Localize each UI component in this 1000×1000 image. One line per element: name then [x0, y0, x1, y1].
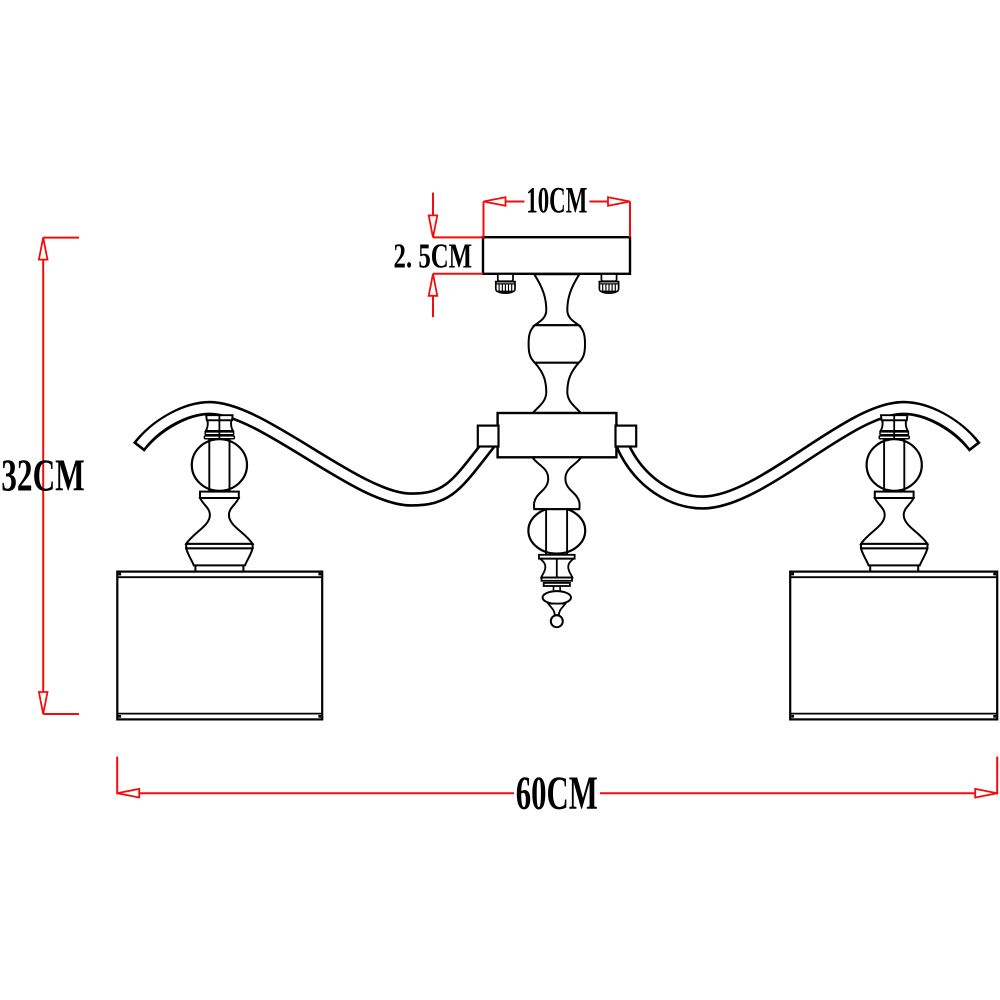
arrow 10CM right — [608, 197, 630, 206]
spool cap — [206, 415, 232, 420]
32CM top serif — [43, 237, 79, 239]
2.5CM lower leader — [432, 274, 434, 317]
finial bead — [543, 591, 571, 604]
crystal ball — [192, 439, 247, 491]
left arm tube — [139, 408, 492, 500]
arrow 2.5CM up — [429, 274, 438, 296]
10CM extension left — [483, 202, 485, 238]
left drum shade — [117, 572, 322, 720]
finial cup — [540, 559, 573, 578]
stub to shade — [194, 565, 196, 572]
right shade baluster — [861, 415, 927, 572]
32CM dimension line — [42, 238, 44, 714]
hub left tab — [478, 426, 499, 447]
finial drop ball — [551, 615, 563, 627]
finial teardrop — [548, 604, 565, 615]
left mounting screw — [496, 274, 515, 293]
right mounting screw — [599, 274, 618, 293]
spool cap — [881, 415, 907, 420]
hub right tab — [616, 426, 637, 447]
lower stem hourglass — [533, 363, 581, 413]
60CM extension bar left — [116, 757, 118, 795]
arrow 60CM left — [117, 789, 139, 798]
60CM extension bar right — [996, 757, 998, 795]
svg-text:10CM: 10CM — [526, 180, 587, 221]
crystal ball — [867, 439, 922, 491]
finial collar — [539, 555, 575, 559]
vase body — [861, 498, 927, 544]
upper stem hourglass — [534, 274, 579, 325]
label 10CM — [525, 185, 590, 217]
finial rings — [542, 578, 573, 581]
svg-text:2. 5CM: 2. 5CM — [394, 237, 473, 276]
bell ring — [861, 544, 927, 549]
ceiling canopy plate — [483, 237, 630, 274]
32CM bottom serif — [43, 713, 79, 715]
2.5CM upper leader — [432, 193, 434, 238]
arrow 60CM right — [975, 789, 997, 798]
svg-text:60CM: 60CM — [516, 767, 598, 820]
canopy top extension — [433, 236, 484, 238]
finial vase — [533, 457, 582, 509]
collar plate — [200, 492, 239, 498]
svg-text:32CM: 32CM — [1, 450, 85, 500]
right drum shade — [790, 572, 997, 720]
upper stem sphere — [529, 325, 585, 363]
10CM extension right — [629, 202, 631, 238]
center finial stack — [528, 457, 585, 627]
60CM dimension line — [117, 792, 997, 794]
bell ring — [186, 544, 252, 549]
arrow 10CM left — [484, 197, 506, 206]
canopy bottom extension — [433, 273, 483, 275]
skirt — [861, 548, 927, 565]
right arm tube — [621, 408, 975, 503]
arrow 2.5CM down — [429, 215, 438, 237]
arrow 32CM up — [39, 238, 48, 260]
arrow 32CM down — [39, 692, 48, 714]
stub to shade — [869, 565, 871, 572]
10CM dimension line — [484, 201, 631, 203]
central hub block — [498, 413, 617, 457]
label 60CM — [514, 775, 600, 812]
collar plate — [875, 492, 914, 498]
finial crystal ball — [528, 508, 585, 554]
skirt — [186, 548, 252, 565]
vase body — [186, 498, 252, 544]
left shade baluster — [186, 415, 252, 572]
